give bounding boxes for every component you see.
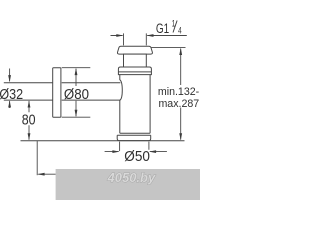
arrow Ø80 bottom (points down) — [75, 110, 78, 117]
dim Ø50 dimension line — [105, 151, 167, 153]
dim Ø50 extension lines — [120, 142, 149, 151]
svg-text:Ø50: Ø50 — [124, 148, 150, 164]
arrow 80 bottom (points down) — [28, 133, 31, 140]
arrow G dim left (points right) — [116, 34, 123, 37]
arrow Ø80 top (points up) — [75, 68, 78, 75]
arrow hidden dim (points left) — [37, 173, 44, 176]
dim G1 1/4 dimension line — [111, 35, 187, 37]
inlet pipe bottom edge — [4, 99, 120, 101]
collar — [118, 67, 151, 75]
dim Ø32 arrow shafts — [9, 69, 11, 109]
dim Ø80 dimension line — [75, 69, 77, 117]
arrow Ø50 right (points left) — [149, 150, 156, 153]
hidden dim vertical extension line — [36, 141, 38, 175]
svg-text:4050.by: 4050.by — [107, 170, 156, 185]
baseline bottom reference line — [21, 140, 185, 142]
inlet tube between nut and collar — [124, 54, 147, 67]
arrow Ø32 top (points down) — [8, 75, 11, 82]
arrow G dim right (points left) — [146, 34, 153, 37]
watermark band — [56, 169, 200, 200]
arrow min/max top (points up) — [179, 48, 182, 55]
svg-text:80: 80 — [22, 111, 36, 127]
svg-text:max.287: max.287 — [158, 98, 199, 110]
svg-text:4: 4 — [178, 25, 182, 35]
body bottom cap — [117, 135, 151, 140]
collar seam line — [118, 71, 151, 73]
dim min/max dimension line — [180, 49, 182, 140]
hidden dim dimension line — [38, 173, 56, 175]
dim 80 dimension line — [28, 101, 30, 140]
arrow Ø50 left (points right) — [112, 150, 119, 153]
arrow min/max bottom (points down) — [179, 133, 182, 140]
label G1 1/4 — [156, 19, 182, 37]
dim G1 1/4 extension lines — [124, 33, 147, 45]
arrow 80 top (points up) — [28, 100, 31, 107]
trap nut (trapezoid) — [117, 46, 152, 54]
trap body cup — [120, 75, 150, 134]
dim min/max top extension line — [151, 47, 185, 49]
arrow Ø32 bottom (points up) — [8, 100, 11, 107]
inlet pipe (wall tube) top edge — [4, 82, 121, 84]
svg-text:Ø32: Ø32 — [0, 86, 23, 102]
svg-text:min.132-: min.132- — [158, 86, 200, 98]
body bottom seam lines — [117, 133, 151, 135]
fraction slash of G1 1/4 — [173, 21, 177, 33]
svg-text:G1: G1 — [156, 21, 170, 37]
svg-text:Ø80: Ø80 — [64, 86, 89, 102]
dim Ø80 extension lines — [62, 68, 91, 118]
wall flange rosette — [53, 68, 61, 118]
